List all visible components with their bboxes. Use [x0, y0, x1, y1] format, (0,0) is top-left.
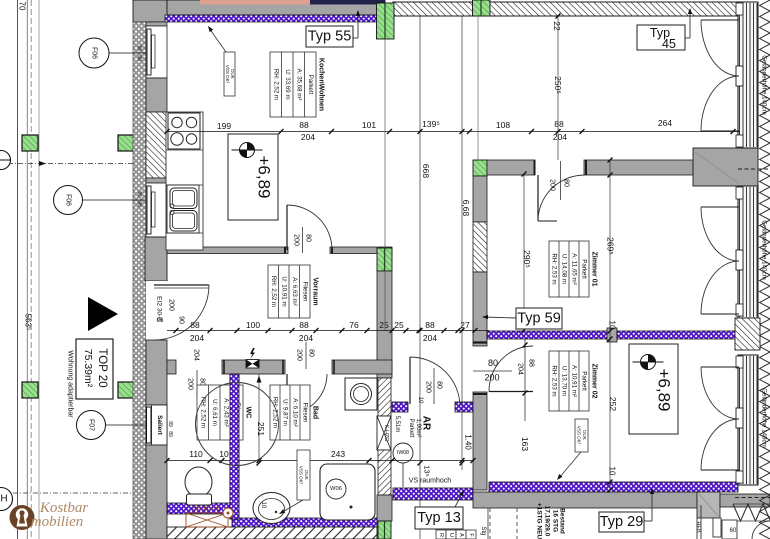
- svg-text:Typ 29: Typ 29: [600, 514, 644, 530]
- svg-text:6,68: 6,68: [461, 200, 471, 217]
- shower tray: [320, 464, 375, 520]
- bottom wall light block: [697, 492, 720, 518]
- svg-text:290⁵: 290⁵: [522, 250, 532, 268]
- sink unit: [167, 185, 199, 233]
- svg-text:200: 200: [187, 378, 194, 390]
- elevation marker zimmer02 +6,89: [629, 344, 678, 434]
- ventilation circle WC: [196, 383, 279, 466]
- survey line row 2 (H): [13, 492, 133, 494]
- dashes on bottom right: [735, 497, 770, 499]
- svg-text:25: 25: [379, 320, 389, 330]
- Bad top wall right part: [332, 360, 392, 374]
- vertical dim/grid lines: [419, 16, 421, 539]
- Bad door leaf and arc: [286, 374, 288, 414]
- svg-text:96: 96: [136, 45, 142, 51]
- svg-text:80: 80: [305, 234, 312, 242]
- elevation marker kitchen +6,89: [228, 134, 278, 220]
- svg-text:TOP 20: TOP 20: [96, 348, 108, 387]
- info box Zimmer 02: [549, 351, 598, 411]
- Zimmer01 door leaf and arc: [537, 175, 539, 221]
- left wall segment: [146, 78, 167, 112]
- svg-text:204: 204: [299, 333, 313, 343]
- entrance opening: [146, 281, 167, 340]
- svg-text:Geländerhöhe 140cm: Geländerhöhe 140cm: [761, 220, 768, 280]
- balcony divider block: [693, 148, 758, 186]
- svg-text:Parkett: Parkett: [581, 371, 588, 391]
- svg-text:R: R: [438, 533, 444, 537]
- svg-text:Parkett: Parkett: [408, 418, 414, 437]
- svg-text:U: 9,87 m: U: 9,87 m: [282, 399, 289, 426]
- svg-text:H: H: [0, 494, 7, 505]
- stove: [168, 113, 200, 149]
- svg-text:A: 6,10 m²: A: 6,10 m²: [292, 398, 299, 427]
- K-HZG shaft box: [377, 416, 391, 450]
- svg-text:HEB: HEB: [695, 521, 701, 533]
- svg-text:WC: WC: [245, 407, 252, 419]
- svg-text:101: 101: [362, 120, 376, 130]
- svg-text:199: 199: [217, 121, 231, 131]
- svg-text:200: 200: [549, 179, 556, 191]
- svg-text:60: 60: [730, 528, 737, 534]
- bottom-right railing zigzag horizontal: [733, 504, 770, 521]
- svg-text:F06: F06: [91, 47, 98, 59]
- floor-above band salmon: [200, 0, 310, 5]
- window frame band 3: [738, 355, 758, 485]
- left wall segment below entrance: [146, 340, 167, 405]
- marker F06 window 2: [54, 186, 83, 215]
- svg-text:Zimmer 01: Zimmer 01: [591, 251, 598, 286]
- dim line bottom y=463: [167, 460, 473, 462]
- WC/Bad top wall middle: [222, 360, 285, 374]
- green square marker 1: [22, 135, 38, 151]
- svg-text:U: U: [448, 533, 454, 537]
- zimmer divider gray piece: [607, 328, 617, 342]
- svg-text:200: 200: [484, 373, 499, 383]
- AR top wall purple right: [455, 402, 473, 412]
- bottom exterior: purple strip WC: [167, 503, 232, 514]
- svg-text:17,19/29,0: 17,19/29,0: [544, 506, 551, 537]
- WC/Bad top wall left stub: [167, 360, 176, 374]
- svg-text:Parkett: Parkett: [307, 75, 314, 95]
- left wall block at vorraum: [145, 237, 167, 281]
- zimmer divider purple strip left: [487, 331, 607, 339]
- balcony door pair 2: [701, 206, 739, 208]
- green square marker 3: [22, 382, 38, 398]
- apartment divider wall: green top: [473, 160, 487, 176]
- svg-text:U: 10,91 m: U: 10,91 m: [280, 276, 287, 306]
- svg-text:Zimmer 02: Zimmer 02: [591, 363, 598, 398]
- electrical box symbol: [246, 360, 259, 369]
- svg-text:Typ 55: Typ 55: [308, 29, 352, 45]
- svg-text:RH: 2,52 m: RH: 2,52 m: [272, 69, 279, 100]
- svg-text:A: 10,91 m²: A: 10,91 m²: [571, 365, 578, 397]
- svg-text:204: 204: [193, 349, 200, 361]
- svg-text:VSS OK³: VSS OK³: [577, 426, 582, 445]
- svg-text:16 STG: 16 STG: [552, 510, 559, 532]
- svg-text:mobilien: mobilien: [31, 514, 84, 530]
- label Typ 59: [516, 308, 562, 329]
- floor-above band dark: [310, 0, 385, 5]
- svg-text:13⁵: 13⁵: [423, 465, 432, 476]
- label Typ 29: [599, 512, 644, 532]
- svg-text:100: 100: [246, 320, 260, 330]
- dim line top y=131: [167, 131, 740, 133]
- svg-text:Vorraum: Vorraum: [312, 277, 319, 305]
- svg-text:75.39m²: 75.39m²: [82, 349, 94, 388]
- balcony door pair 3: [701, 366, 739, 368]
- svg-text:163: 163: [520, 437, 530, 451]
- svg-text:+6,89: +6,89: [655, 368, 674, 411]
- svg-text:204: 204: [190, 333, 204, 343]
- vertical wall gray segment: [377, 271, 392, 378]
- wall label Saliert: [152, 405, 168, 445]
- VSS box zimmer02: [575, 419, 588, 452]
- svg-text:88: 88: [190, 320, 200, 330]
- svg-text:243: 243: [331, 449, 345, 459]
- green square marker 2: [118, 135, 134, 151]
- svg-text:96: 96: [136, 201, 142, 207]
- svg-text:1.40: 1.40: [464, 434, 473, 450]
- bottom wall right piece: [720, 494, 770, 507]
- left wall small segment: [146, 178, 167, 183]
- svg-text:200: 200: [293, 234, 300, 246]
- window niche 2 (F06): [146, 183, 167, 237]
- svg-text:10: 10: [608, 467, 617, 476]
- svg-text:80: 80: [436, 381, 443, 389]
- svg-text:DUK: DUK: [304, 470, 309, 480]
- svg-text:Saliert: Saliert: [156, 415, 163, 436]
- svg-text:80: 80: [308, 349, 315, 357]
- label Typ 55: [306, 26, 353, 47]
- vertical wall hatch segment 2: [378, 450, 391, 495]
- bottom-right corner arc: [752, 521, 770, 539]
- svg-text:Bestand: Bestand: [559, 508, 566, 534]
- bottom exterior hatch band: [167, 527, 377, 539]
- svg-text:RH: 2,52 m: RH: 2,52 m: [272, 397, 279, 428]
- svg-text:U: 13,70 m: U: 13,70 m: [561, 366, 568, 396]
- ventilation circle overlay: [196, 383, 279, 466]
- window frame band 1: [738, 2, 758, 148]
- dim line middle y=330: [167, 330, 489, 332]
- svg-text:76: 76: [349, 320, 359, 330]
- Zimmer02 door leaf and arc: [489, 391, 533, 393]
- VS box bad: [297, 450, 310, 500]
- svg-text:U: 6,61 m: U: 6,61 m: [211, 399, 218, 426]
- stair edge boxes bottom right: [713, 518, 721, 537]
- logo kostbar immobilien: [10, 505, 35, 530]
- svg-text:88: 88: [528, 359, 535, 367]
- svg-text:VS raumhoch: VS raumhoch: [409, 478, 452, 485]
- svg-text:Fliesen: Fliesen: [301, 282, 308, 303]
- svg-text:96: 96: [136, 191, 142, 197]
- circle marker left: [0, 151, 11, 170]
- svg-text:VSS OK³: VSS OK³: [225, 65, 230, 84]
- railing zigzag right edge: [760, 0, 770, 539]
- vorraum wall right part: [330, 247, 392, 254]
- svg-text:25: 25: [394, 320, 404, 330]
- kitchen counter: [166, 112, 203, 250]
- AR door leaf and arc: [409, 357, 411, 404]
- left exterior wall: insulation dotted layer: [133, 22, 146, 539]
- svg-text:89: 89: [167, 431, 173, 437]
- sash handle boxes: [736, 3, 743, 15]
- window frame band 2: [738, 186, 758, 318]
- top-left corner wall block: [133, 0, 167, 22]
- svg-text:DUK: DUK: [582, 430, 587, 440]
- zimmer01 top wall right: [584, 160, 693, 175]
- svg-text:AR: AR: [421, 416, 432, 431]
- svg-text:139⁵: 139⁵: [422, 119, 440, 129]
- svg-text:88: 88: [299, 120, 309, 130]
- svg-text:80: 80: [488, 358, 498, 368]
- svg-text:264: 264: [658, 118, 672, 128]
- survey line row 1: [8, 163, 133, 165]
- svg-text:110: 110: [189, 449, 203, 459]
- info box WC: [197, 385, 252, 440]
- svg-text:250⁵: 250⁵: [553, 76, 563, 94]
- svg-text:45: 45: [662, 37, 676, 51]
- svg-text:K-HZG: K-HZG: [383, 424, 389, 441]
- vertical wall hatch segment: [378, 378, 391, 416]
- green window bottom: [378, 521, 391, 539]
- svg-text:RH: 2,53 m: RH: 2,53 m: [551, 253, 558, 284]
- svg-text:204: 204: [423, 333, 437, 343]
- WC/Bad divider purple wall: [230, 374, 239, 519]
- shower circle label W06: [326, 479, 346, 499]
- svg-text:W06: W06: [330, 486, 342, 492]
- svg-text:RH: 2,52 m: RH: 2,52 m: [270, 276, 277, 307]
- svg-text:89: 89: [167, 421, 173, 427]
- svg-text:88: 88: [425, 320, 435, 330]
- IW08 circle: [393, 443, 413, 463]
- info box Bad: [270, 385, 319, 440]
- svg-text:DUK: DUK: [230, 69, 235, 79]
- zimmer divider purple strip right: [617, 331, 735, 339]
- left wall bottom segment: [146, 445, 167, 539]
- apartment divider gray 2: [473, 272, 487, 346]
- svg-text:204: 204: [517, 363, 524, 375]
- label Typ 13: [415, 507, 463, 529]
- svg-text:668: 668: [421, 164, 431, 178]
- svg-text:A: A: [458, 533, 464, 537]
- info box KochenWohnen: [270, 52, 325, 117]
- WC/Bad purple wall overlay: [230, 374, 239, 519]
- svg-text:Wohnung adaptierbar: Wohnung adaptierbar: [67, 350, 74, 418]
- svg-text:Bad: Bad: [312, 406, 319, 419]
- svg-text:A: 2,43 m²: A: 2,43 m²: [222, 398, 229, 427]
- top wall right (hatched): [393, 2, 740, 16]
- svg-text:252: 252: [608, 397, 618, 411]
- svg-text:Typ 13: Typ 13: [417, 510, 461, 526]
- svg-text:Geländerhöhe 140cm: Geländerhöhe 140cm: [761, 55, 768, 115]
- balcony door pair 1: [701, 19, 739, 21]
- svg-text:F06: F06: [65, 194, 72, 206]
- svg-text:96: 96: [136, 55, 142, 61]
- vertical wall gray bottom: [377, 495, 392, 521]
- bottom wall gray band: [473, 492, 697, 508]
- svg-text:A: 11,65 m²: A: 11,65 m²: [571, 253, 578, 285]
- typ13 info box cut at bottom: [436, 530, 446, 539]
- svg-text:06: 06: [157, 318, 164, 324]
- washing machine: [345, 378, 377, 410]
- svg-text:+1STG NEU: +1STG NEU: [536, 503, 543, 539]
- svg-text:U: 33,69 m: U: 33,69 m: [284, 69, 291, 99]
- insulation strip top (purple): [165, 15, 377, 22]
- green square marker 4: [118, 382, 134, 398]
- marker F07 window: [77, 411, 106, 440]
- top wall left (gray): [167, 0, 385, 15]
- label TOP 20 box: [76, 339, 113, 399]
- info box Zimmer 01: [549, 241, 598, 297]
- svg-text:22: 22: [552, 21, 562, 31]
- apartment divider hatch: [473, 222, 487, 272]
- svg-text:563⁵: 563⁵: [24, 314, 33, 331]
- zimmer01 top wall left: [487, 160, 535, 175]
- label Typ 45: [637, 25, 685, 50]
- svg-text:269⁵: 269⁵: [606, 237, 616, 255]
- dashes on balcony 1: [738, 168, 770, 170]
- right hatch block at zimmer divider: [735, 318, 760, 350]
- zimmer02 bottom purple strip: [489, 482, 738, 492]
- svg-text:KochenWohnen: KochenWohnen: [318, 58, 325, 111]
- window block green top 2: [473, 0, 491, 16]
- svg-text:200: 200: [425, 381, 432, 393]
- svg-text:108: 108: [496, 120, 510, 130]
- svg-text:251: 251: [256, 422, 266, 436]
- svg-text:Typ 59: Typ 59: [517, 311, 561, 327]
- svg-text:88: 88: [299, 320, 309, 330]
- site boundary lines left: [17, 0, 19, 539]
- svg-text:DD 80/20: DD 80/20: [192, 506, 220, 513]
- toilet WC: [185, 467, 212, 497]
- svg-text:VSS OK³: VSS OK³: [299, 466, 304, 485]
- bidet/basin Bad: [253, 493, 290, 524]
- svg-text:IW08: IW08: [397, 450, 409, 456]
- AR top wall purple left: [392, 402, 408, 412]
- svg-text:204: 204: [301, 132, 315, 142]
- entrance door EI2 30-C: [154, 284, 209, 286]
- svg-text:5,51m: 5,51m: [394, 416, 400, 433]
- marker F06 window 1: [79, 38, 109, 68]
- stair dashed lines: [489, 508, 491, 539]
- entrance arrow triangle: [88, 297, 118, 331]
- svg-text:RH: 2,52 m: RH: 2,52 m: [199, 397, 206, 428]
- svg-text:10: 10: [219, 449, 229, 459]
- kitchen/vorraum dividing wall: [167, 247, 288, 254]
- svg-text:U: 14,08 m: U: 14,08 m: [561, 254, 568, 284]
- svg-text:1,90m²: 1,90m²: [415, 419, 421, 438]
- svg-text:Geländerhöhe 140cm: Geländerhöhe 140cm: [761, 388, 768, 448]
- svg-text:Stg: Stg: [480, 526, 486, 535]
- svg-text:80: 80: [563, 179, 570, 187]
- lightning symbol: [250, 348, 255, 359]
- bottom exterior: purple strip Bad: [232, 518, 377, 527]
- svg-text:88: 88: [554, 119, 564, 129]
- svg-text:Parkett: Parkett: [581, 259, 588, 279]
- svg-text:RH: 2,53 m: RH: 2,53 m: [551, 365, 558, 396]
- left wall hatched segment: [146, 112, 167, 178]
- svg-text:70: 70: [18, 2, 27, 11]
- svg-text:200: 200: [296, 349, 303, 361]
- svg-text:200: 200: [168, 299, 175, 311]
- svg-text:10: 10: [260, 502, 266, 509]
- svg-text:A: 6,63 m²: A: 6,63 m²: [291, 277, 298, 306]
- window niche F07 with label: [146, 405, 167, 445]
- svg-text:90: 90: [178, 316, 185, 324]
- left wall segment above window1: [146, 22, 167, 26]
- apartment divider gray: [473, 176, 487, 222]
- svg-text:F07: F07: [88, 419, 95, 431]
- apartment divider gray 3: [473, 392, 487, 490]
- svg-text:+6,89: +6,89: [255, 155, 274, 198]
- circle marker H: [0, 488, 13, 511]
- vertical wall vorraum/AR column: green window: [377, 248, 392, 271]
- info box Vorraum: [268, 265, 319, 318]
- svg-text:A: 35,68 m²: A: 35,68 m²: [295, 69, 302, 101]
- svg-text:Fliesen: Fliesen: [302, 403, 309, 424]
- VSS OK DUK box kitchen: [224, 52, 235, 96]
- kitchen-vorraum door: [286, 205, 288, 250]
- window block green top 1: [377, 3, 395, 39]
- AR bottom wall purple: [393, 488, 473, 500]
- window niche 1 (F06): [146, 26, 167, 78]
- svg-text:10: 10: [608, 321, 617, 330]
